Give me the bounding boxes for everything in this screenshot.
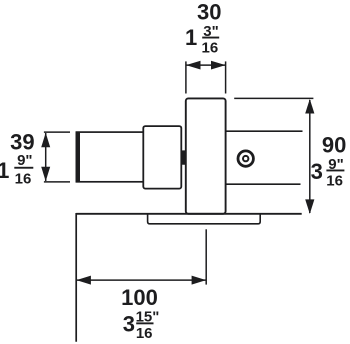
glass edge vertical line: [75, 213, 77, 342]
svg-text:16: 16: [326, 172, 343, 189]
tick top of 90-dim: [234, 97, 313, 99]
screw head: [238, 151, 253, 166]
text 90 (mm height of plate): [322, 132, 346, 157]
svg-text:3: 3: [311, 159, 323, 184]
dimension line 100 (horizontal, outward arrows): [76, 276, 206, 285]
extension line right of 30-dim: [225, 61, 227, 93]
text 3 15/16 inch: [123, 308, 160, 342]
text 3 9/16 inch: [311, 156, 345, 190]
tick top of 39-dim: [44, 131, 70, 133]
svg-text:39: 39: [10, 129, 34, 154]
extension line left of 30-dim: [185, 61, 187, 93]
text 1 9/16 inch: [0, 152, 33, 188]
spindle neck between collar and plate: [181, 150, 186, 164]
text 39 (mm height of shaft): [10, 129, 34, 154]
text 100 (mm distance to spindle centre): [121, 285, 158, 310]
tick bottom of 39-dim: [44, 181, 70, 183]
svg-text:16: 16: [136, 325, 153, 342]
svg-text:90: 90: [322, 132, 346, 157]
svg-text:100: 100: [121, 285, 158, 310]
svg-text:16: 16: [202, 39, 219, 56]
lock body mid edge: [226, 183, 301, 185]
knob shaft: [76, 132, 144, 182]
dimension line 39 (vertical, outward arrows): [41, 133, 50, 181]
svg-text:9": 9": [17, 152, 32, 169]
extension line right of 100-dim: [205, 229, 207, 284]
collar: [143, 126, 181, 189]
svg-text:16: 16: [15, 171, 32, 188]
svg-text:1: 1: [185, 25, 197, 50]
svg-text:30: 30: [197, 0, 221, 25]
flange under surface: [148, 214, 261, 224]
text 30 (mm width of plate): [197, 0, 221, 25]
plate (rosette, side view): [186, 98, 226, 213]
main bottom edge line (glass/surface): [76, 213, 302, 215]
svg-text:3: 3: [123, 312, 135, 337]
dimension line 30 (horizontal, outward arrows): [186, 61, 226, 70]
text 1 3/16 inch: [185, 23, 219, 57]
lock body top edge: [226, 130, 303, 132]
svg-text:1: 1: [0, 158, 9, 183]
dimension line 90 (vertical, outward arrows): [305, 99, 314, 214]
